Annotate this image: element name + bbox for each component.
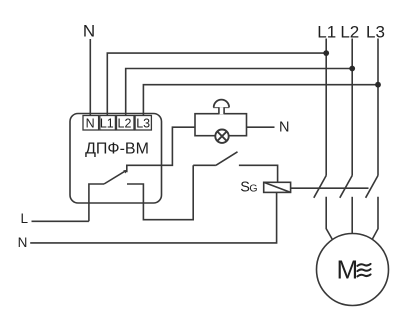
svg-text:N: N xyxy=(83,22,95,41)
svg-text:L1: L1 xyxy=(317,23,336,42)
svg-text:L3: L3 xyxy=(366,23,385,42)
svg-text:L3: L3 xyxy=(136,116,150,130)
svg-text:L: L xyxy=(21,211,29,226)
svg-text:L2: L2 xyxy=(118,116,132,130)
svg-text:N: N xyxy=(18,235,28,250)
svg-text:M: M xyxy=(337,255,359,285)
svg-text:N: N xyxy=(86,116,95,130)
svg-text:L2: L2 xyxy=(340,23,359,42)
svg-text:L1: L1 xyxy=(100,116,114,130)
svg-text:G: G xyxy=(249,183,257,195)
svg-text:N: N xyxy=(279,120,289,136)
svg-text:ДПФ-ВМ: ДПФ-ВМ xyxy=(85,140,149,157)
